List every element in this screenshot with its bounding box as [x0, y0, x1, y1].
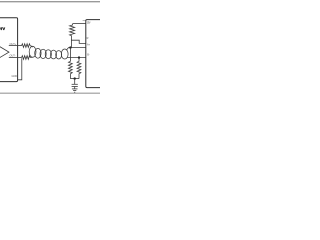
node A junction — [69, 46, 71, 48]
resistor R3 — [70, 24, 75, 48]
wire line B — [67, 57, 85, 59]
wire line A — [68, 47, 86, 49]
svg-text:B-: B- — [87, 53, 90, 56]
svg-text:A+: A+ — [87, 44, 91, 47]
wire R3 top to receiver — [73, 23, 86, 25]
node C junction — [74, 77, 76, 79]
resistor R4 — [69, 48, 73, 79]
resistor R1 — [22, 44, 31, 48]
svg-text:R: R — [87, 37, 89, 40]
driver amplifier symbol — [0, 47, 9, 58]
node B junction — [78, 56, 80, 58]
wire termination midpoint — [70, 78, 79, 80]
ground — [72, 89, 78, 92]
wire OUT- — [9, 57, 22, 59]
svg-text:Drv: Drv — [0, 26, 6, 31]
wire R3 tap to receiver — [71, 40, 85, 43]
wire OUT+ — [9, 45, 22, 47]
receiver IC U2 — [86, 20, 108, 88]
resistor R5 — [77, 58, 81, 79]
resistor R2 — [22, 56, 31, 60]
capacitor C1 — [72, 79, 78, 89]
wire GND — [18, 58, 22, 80]
svg-text:GND: GND — [12, 75, 18, 78]
wire Vcc stub — [83, 20, 86, 22]
twisted pair cable — [29, 46, 69, 59]
driver IC U1 — [0, 18, 18, 82]
